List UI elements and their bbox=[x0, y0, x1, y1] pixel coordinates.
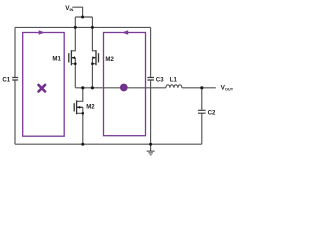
wire Vin tee bar bbox=[75, 16, 92, 18]
loop arrow left box (clockwise, points right) bbox=[39, 30, 45, 35]
wire right branch upper bbox=[150, 27, 152, 77]
svg-text:M2: M2 bbox=[86, 104, 95, 111]
arrowhead M1 body bbox=[72, 56, 75, 59]
svg-text:M1: M1 bbox=[52, 56, 61, 63]
wire switch node rail bbox=[75, 87, 166, 89]
inductor L1 bbox=[166, 85, 182, 88]
loop box right (purple) bbox=[104, 33, 146, 136]
wire left branch lower bbox=[14, 80, 16, 144]
transistor M2 gate bbox=[98, 53, 100, 62]
arrowhead low M2 body bbox=[77, 106, 80, 109]
transistor M2 body stub bbox=[92, 57, 96, 59]
wire top rail Vin bbox=[15, 26, 151, 28]
wire low-side M2 drain bbox=[77, 88, 83, 102]
junction M2 source on switch rail bbox=[91, 86, 94, 89]
junction M2 source-body bbox=[91, 62, 94, 65]
wire bottom ground rail bbox=[15, 143, 202, 145]
junction C3 branch on ground rail bbox=[149, 143, 152, 146]
svg-text:L1: L1 bbox=[170, 76, 178, 83]
current dot marker bbox=[120, 84, 128, 92]
svg-text:M2: M2 bbox=[105, 56, 114, 63]
junction low M2 drain on switch rail bbox=[81, 86, 84, 89]
junction Vin tee bbox=[81, 16, 84, 19]
wire M2 body tie bbox=[91, 58, 93, 64]
junction M1 source-body bbox=[74, 62, 77, 65]
transistor M2 channel bbox=[95, 50, 97, 65]
capacitor C2 wire lower bbox=[201, 114, 203, 145]
svg-text:VOUT: VOUT bbox=[221, 84, 234, 91]
junction output node bbox=[200, 86, 203, 89]
wire switch rail to output bbox=[182, 87, 216, 89]
capacitor C3 plates bbox=[147, 78, 154, 81]
capacitor C2 wire upper bbox=[201, 88, 203, 110]
wire M1 body tie bbox=[74, 58, 76, 64]
transistor M1 channel bbox=[70, 50, 72, 65]
transistor M2 low-side body stub bbox=[77, 106, 83, 108]
wire M2 drain bbox=[92, 27, 96, 50]
capacitor C1 plates bbox=[12, 78, 18, 81]
junction M2 drain on rail bbox=[91, 26, 94, 29]
ground bars bbox=[147, 151, 155, 155]
loop arrow right box (points left) bbox=[122, 30, 128, 35]
wire Vin feed bbox=[72, 7, 82, 17]
wire M2 source bbox=[92, 64, 96, 88]
wire low-side M2 body tie bbox=[82, 107, 84, 113]
wire M2 drain feed bbox=[91, 17, 93, 27]
transistor M2 low-side gate bbox=[73, 103, 75, 111]
svg-text:C1: C1 bbox=[2, 77, 10, 84]
transistor M1 body stub bbox=[71, 57, 75, 59]
junction low M2 source on ground rail bbox=[81, 143, 84, 146]
wire left branch upper bbox=[14, 27, 16, 77]
loop box left (purple) bbox=[23, 33, 64, 137]
wire right branch lower bbox=[150, 80, 152, 144]
transistor M2 low-side channel bbox=[76, 100, 78, 114]
capacitor C2 plates bbox=[198, 110, 206, 113]
junction low M2 source-body bbox=[82, 112, 85, 115]
wire M1 source bbox=[71, 64, 75, 88]
svg-text:C3: C3 bbox=[156, 77, 164, 84]
wire low-side M2 source bbox=[77, 113, 83, 144]
transistor M1 gate bbox=[68, 53, 70, 62]
junction M1 drain on rail bbox=[74, 26, 77, 29]
arrowhead M2 body bbox=[92, 56, 95, 59]
wire M1 drain feed bbox=[74, 17, 76, 27]
wire M1 drain bbox=[71, 27, 75, 50]
ground stem bbox=[150, 144, 152, 151]
svg-text:C2: C2 bbox=[208, 110, 216, 117]
svg-text:VIN: VIN bbox=[65, 5, 73, 12]
current X marker bbox=[39, 85, 46, 92]
